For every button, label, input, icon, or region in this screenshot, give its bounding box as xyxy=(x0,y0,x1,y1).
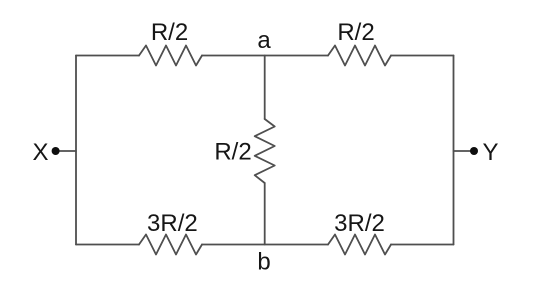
wire Y terminal stub xyxy=(454,150,472,152)
terminal Y dot xyxy=(470,147,478,155)
resistor R/2 top-right zigzag xyxy=(328,46,391,66)
wire bottom-left segment xyxy=(76,244,139,246)
svg-text:b: b xyxy=(257,249,270,276)
wire top-middle segment to node a xyxy=(202,55,328,57)
wire X terminal stub xyxy=(58,150,76,152)
wire bottom-right segment xyxy=(391,244,454,246)
terminal X dot xyxy=(52,147,60,155)
svg-text:X: X xyxy=(32,139,48,166)
wire node b rise xyxy=(264,183,266,245)
wire node a drop xyxy=(264,56,266,120)
svg-text:a: a xyxy=(257,27,271,54)
wire top-right segment xyxy=(391,55,454,57)
svg-text:R/2: R/2 xyxy=(337,19,374,46)
svg-text:Y: Y xyxy=(482,139,498,166)
svg-text:R/2: R/2 xyxy=(151,19,188,46)
wire top-left segment xyxy=(76,55,139,57)
wire left vertical (X branch riser) xyxy=(75,56,77,245)
resistor 3R/2 bottom-right zigzag xyxy=(328,235,391,255)
resistor R/2 top-left zigzag xyxy=(139,46,202,66)
resistor 3R/2 bottom-left zigzag xyxy=(139,235,202,255)
svg-text:3R/2: 3R/2 xyxy=(147,210,198,237)
wire bottom-middle segment to node b xyxy=(202,244,328,246)
resistor R/2 middle vertical zigzag xyxy=(255,119,275,183)
svg-text:R/2: R/2 xyxy=(214,138,251,165)
svg-text:3R/2: 3R/2 xyxy=(334,210,385,237)
wire right vertical (Y branch riser) xyxy=(453,56,455,245)
